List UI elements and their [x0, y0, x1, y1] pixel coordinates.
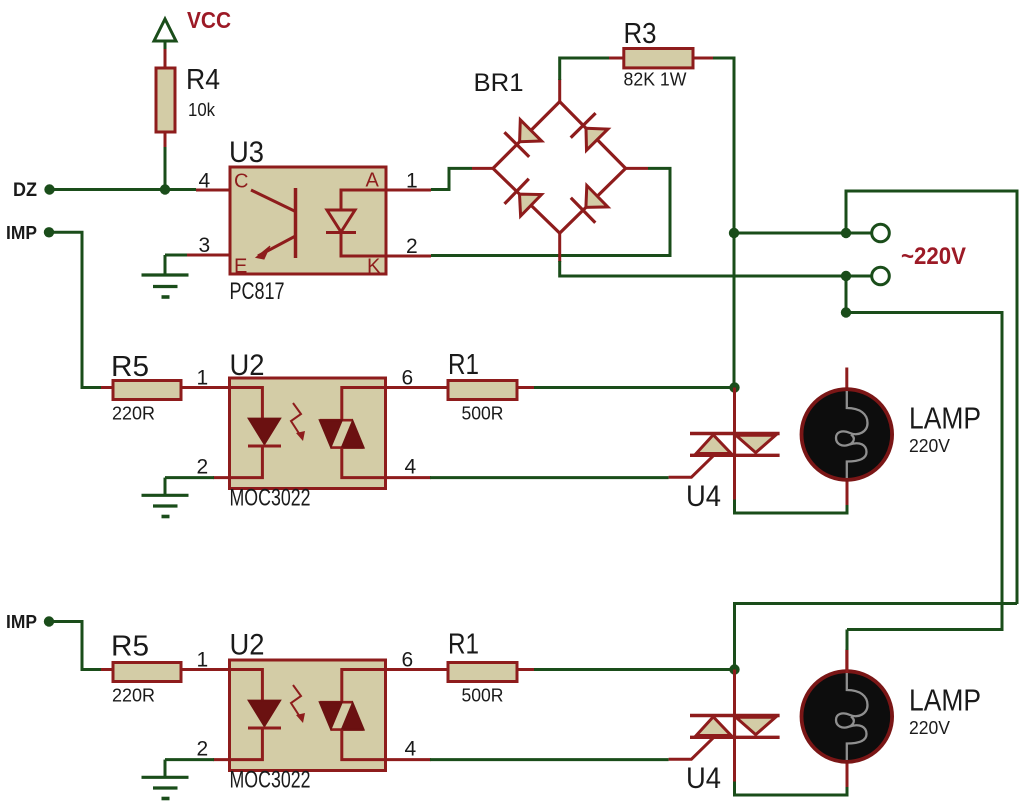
svg-text:R5: R5	[111, 351, 149, 383]
svg-text:1: 1	[197, 649, 209, 672]
svg-text:U2: U2	[230, 629, 265, 662]
svg-text:PC817: PC817	[230, 278, 285, 305]
bridge BR1 outline	[493, 102, 626, 234]
junction R1/triac (bottom)	[729, 664, 739, 674]
U2 internal LED (bottom)	[230, 670, 263, 701]
lower mains terminal	[872, 267, 890, 285]
junction lamp1 feed	[841, 307, 851, 317]
svg-text:MOC3022: MOC3022	[230, 485, 311, 512]
U2 light arrow (bottom)	[291, 685, 302, 720]
wire bridge top to R3	[558, 79, 561, 102]
wire rail B to bottom junction	[735, 604, 1018, 670]
pin 4 wire (middle)	[386, 476, 432, 479]
U3 pin 3 wire	[186, 254, 231, 257]
svg-text:6: 6	[402, 649, 414, 672]
R1 output wire (bottom)	[517, 668, 535, 671]
U3 pin 4 stub	[196, 189, 231, 192]
svg-text:10k: 10k	[188, 99, 216, 120]
svg-text:U4: U4	[686, 762, 721, 795]
svg-text:K: K	[367, 256, 381, 278]
svg-text:R5: R5	[111, 631, 149, 663]
svg-text:A: A	[366, 170, 380, 192]
triac gate wire (middle)	[669, 455, 714, 477]
wire junction to triac (middle)	[733, 388, 736, 434]
pin 2 wire (middle)	[213, 476, 231, 479]
resistor R1 (bottom)	[448, 663, 517, 682]
node IMP terminal dot (bottom)	[44, 616, 54, 626]
node DZ terminal dot	[44, 184, 54, 194]
node IMP terminal dot (middle)	[44, 227, 54, 237]
lamp wire top stub (middle)	[845, 368, 848, 392]
svg-text:R4: R4	[186, 64, 220, 96]
svg-text:LAMP: LAMP	[909, 401, 981, 436]
bridge diode D2 (top-right)	[586, 128, 608, 150]
resistor R5 (bottom)	[113, 663, 181, 682]
lamp LAMP (bottom)	[802, 671, 893, 762]
svg-text:MOC3022: MOC3022	[230, 767, 311, 794]
wire to upper mains terminal	[734, 232, 872, 235]
svg-text:82K 1W: 82K 1W	[624, 69, 688, 90]
U2 internal photo-triac (bottom)	[342, 670, 386, 703]
resistor R5 (middle)	[113, 381, 181, 400]
U3 pin 1 wire	[386, 189, 431, 192]
svg-text:DZ: DZ	[13, 180, 37, 201]
R1 output wire (middle)	[517, 386, 535, 389]
pin 1 wire (bottom)	[181, 668, 231, 671]
ground for U2 (middle)	[164, 478, 167, 496]
upper mains terminal	[872, 224, 890, 242]
U2 light arrow (middle)	[291, 403, 302, 438]
triac gate wire (bottom)	[669, 737, 714, 759]
svg-text:U4: U4	[686, 480, 721, 513]
svg-text:VCC: VCC	[187, 7, 231, 33]
pin 6 wire (middle)	[386, 386, 450, 389]
wire bridge right stub	[625, 167, 648, 170]
U3 pin 2 wire	[386, 255, 431, 258]
triac MT1 wire (middle)	[733, 455, 736, 500]
svg-text:220R: 220R	[112, 403, 155, 424]
U2 internal LED (middle)	[230, 388, 263, 419]
svg-text:U2: U2	[230, 349, 265, 382]
bridge diode D4 (bottom-right)	[586, 186, 608, 208]
svg-text:IMP: IMP	[6, 223, 37, 243]
triac U4 (middle)	[690, 432, 780, 435]
lamp LAMP (middle)	[802, 389, 893, 480]
junction upper terminal branch	[841, 228, 851, 238]
resistor R4	[156, 68, 175, 132]
svg-text:E: E	[234, 256, 247, 278]
wire rail A to bottom lamp	[846, 630, 849, 652]
svg-text:2: 2	[197, 456, 209, 479]
wire R4 to node	[164, 132, 167, 148]
resistor R1 (middle)	[448, 381, 517, 400]
triac U4 (bottom)	[690, 714, 780, 717]
svg-text:4: 4	[199, 170, 211, 193]
svg-text:U3: U3	[229, 136, 264, 169]
resistor R3	[609, 57, 625, 60]
ground for U3	[164, 255, 167, 275]
wire lower terminal down	[845, 276, 848, 313]
pin 6 wire (bottom)	[386, 668, 450, 671]
svg-text:IMP: IMP	[6, 612, 37, 632]
svg-text:2: 2	[197, 738, 209, 761]
power VCC symbol	[154, 19, 176, 41]
svg-text:6: 6	[402, 367, 414, 390]
junction main/upper terminal	[729, 228, 739, 238]
U3 phototransistor	[251, 190, 296, 212]
U3 internal LED diode	[341, 190, 386, 210]
wire DZ to junction	[50, 188, 197, 191]
svg-text:LAMP: LAMP	[909, 683, 981, 718]
bridge diode D3 (bottom-left)	[520, 194, 542, 216]
wire right rail A	[846, 313, 1002, 630]
triac MT1 wire (bottom)	[733, 737, 736, 782]
junction lower terminal branch	[841, 271, 851, 281]
svg-text:4: 4	[405, 456, 417, 479]
wire IMP to R5 (middle)	[49, 232, 102, 387]
lamp filament (bottom)	[836, 673, 868, 760]
svg-text:220R: 220R	[112, 685, 155, 706]
opto-triac U2 body (middle)	[230, 378, 386, 489]
U2 internal photo-triac (middle)	[342, 388, 386, 421]
svg-text:~220V: ~220V	[901, 243, 966, 270]
svg-text:220V: 220V	[909, 717, 951, 738]
svg-text:BR1: BR1	[474, 69, 524, 97]
lamp wire top stub (bottom)	[845, 650, 848, 674]
wire IMP to R5 (bottom)	[49, 622, 102, 670]
wire bridge left stub	[472, 167, 494, 170]
wire main vertical rail	[733, 58, 736, 390]
wire bridge bottom to mains	[558, 233, 561, 262]
svg-text:500R: 500R	[462, 685, 504, 706]
wire upper terminal to right rail B	[846, 191, 1017, 604]
pin 4 wire (bottom)	[386, 758, 432, 761]
pin 1 wire (middle)	[181, 386, 231, 389]
lamp filament (middle)	[836, 391, 868, 478]
junction R1/triac (middle)	[729, 382, 739, 392]
wire VCC to R4	[164, 49, 167, 68]
svg-text:3: 3	[199, 234, 211, 257]
bridge diode D1 (top-left)	[520, 120, 542, 142]
svg-text:R1: R1	[448, 629, 479, 661]
svg-text:C: C	[234, 171, 248, 193]
opto-triac U2 body (bottom)	[230, 660, 386, 771]
pin 2 wire (bottom)	[213, 758, 231, 761]
svg-text:R1: R1	[448, 349, 479, 381]
svg-text:500R: 500R	[462, 403, 504, 424]
junction node R4/DZ	[160, 184, 170, 194]
ground for U2 (bottom)	[164, 760, 167, 778]
svg-text:220V: 220V	[909, 435, 951, 456]
svg-text:1: 1	[197, 367, 209, 390]
svg-text:R3: R3	[624, 18, 657, 50]
opto-coupler U3 body	[230, 167, 386, 274]
svg-text:4: 4	[405, 738, 417, 761]
wire junction to triac (bottom)	[733, 670, 736, 716]
